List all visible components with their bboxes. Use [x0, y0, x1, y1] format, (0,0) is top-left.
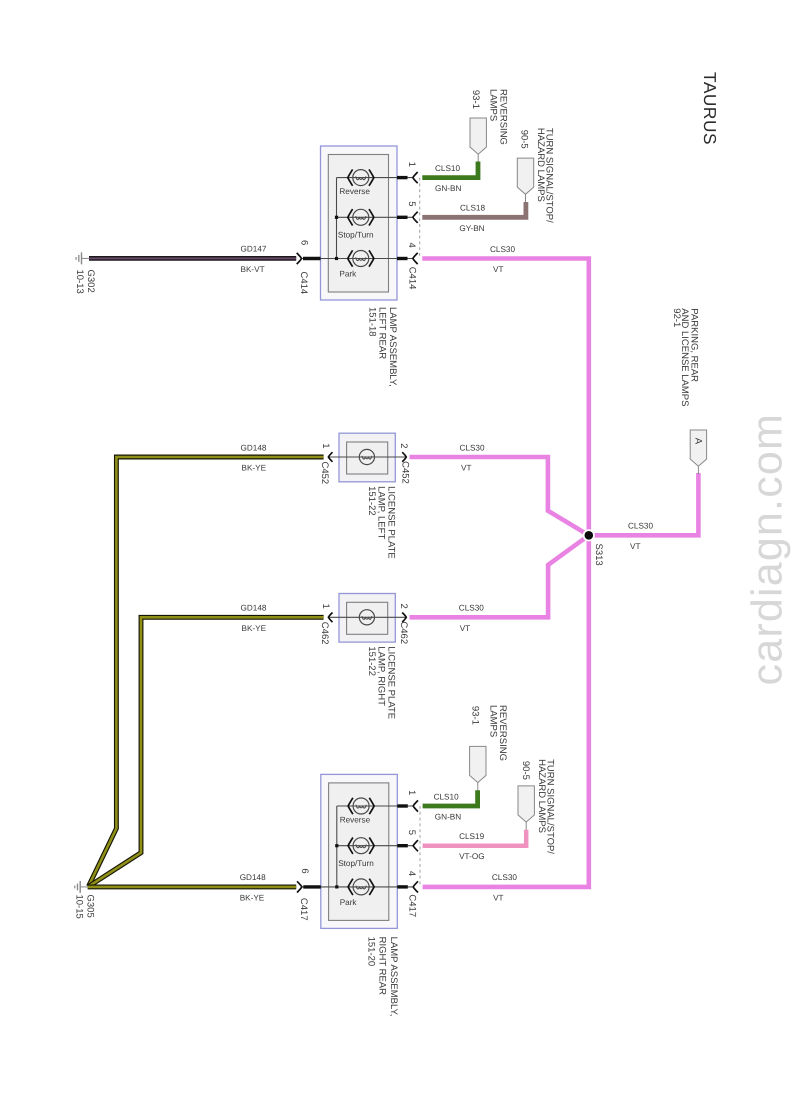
svg-text:CLS30: CLS30 [459, 604, 484, 613]
wire CLS30 VT (license right) [410, 535, 589, 617]
svg-text:1: 1 [406, 790, 417, 795]
label GD147 BK-VT [241, 245, 267, 274]
label CLS30 VT (right lamp) [492, 873, 517, 902]
label CLS18 GY-BN [459, 204, 485, 233]
svg-text:HAZARD LAMPS: HAZARD LAMPS [536, 759, 547, 833]
svg-text:CLS10: CLS10 [435, 164, 460, 173]
off-page connector A PARKING, REAR AND LICENSE LAMPS 92-1 [690, 430, 706, 466]
svg-text:RIGHT REAR: RIGHT REAR [377, 937, 388, 996]
label CLS30 VT (left lamp) [490, 245, 515, 274]
svg-text:151-22: 151-22 [366, 486, 377, 516]
wire CLS19 VT-OG [423, 830, 527, 846]
svg-text:LAMPS: LAMPS [488, 89, 499, 121]
label GD148 BK-YE (right lamp) [240, 873, 266, 902]
off-page connector REVERSING LAMPS 93-1 (left) [470, 118, 486, 154]
svg-text:Park: Park [340, 898, 358, 907]
svg-text:151-18: 151-18 [367, 307, 378, 337]
svg-text:S313: S313 [593, 544, 604, 566]
svg-text:6: 6 [299, 240, 310, 245]
svg-text:G302: G302 [85, 270, 96, 293]
wire CLS10 GN-BN (left) [422, 162, 478, 178]
svg-text:C452: C452 [319, 462, 330, 485]
svg-text:2: 2 [398, 443, 409, 448]
label GD148 BK-YE (license right) [241, 604, 267, 633]
svg-text:GD148: GD148 [240, 873, 266, 882]
svg-text:VT: VT [493, 265, 503, 274]
svg-text:C452: C452 [400, 461, 411, 484]
label CLS30 VT (license right) [459, 604, 484, 633]
svg-text:1: 1 [406, 162, 417, 167]
svg-text:G305: G305 [84, 895, 95, 918]
svg-text:VT: VT [460, 624, 470, 633]
svg-text:151-20: 151-20 [365, 937, 376, 967]
svg-text:5: 5 [406, 201, 417, 206]
off-page connector TURN SIGNAL/STOP/HAZARD LAMPS 90-5 (left) [517, 158, 533, 194]
svg-text:C417: C417 [298, 898, 309, 921]
ground G305 [75, 881, 88, 893]
svg-text:10-15: 10-15 [73, 895, 84, 919]
svg-text:GD148: GD148 [241, 604, 267, 613]
svg-text:CLS18: CLS18 [460, 204, 485, 213]
label GD148 BK-YE (license left) [241, 443, 267, 472]
label LICENSE PLATE LAMP, LEFT 151-22 [366, 486, 397, 559]
label LICENSE PLATE LAMP, RIGHT 151-22 [366, 646, 397, 719]
svg-text:BK-YE: BK-YE [242, 624, 267, 633]
svg-text:CLS10: CLS10 [434, 792, 459, 801]
lamp assembly right rear [297, 774, 420, 928]
label REVERSING LAMPS 93-1 (left) [470, 89, 508, 145]
label G305 10-15 [73, 895, 95, 919]
label CLS19 VT-OG [459, 832, 484, 861]
svg-text:CLS30: CLS30 [628, 522, 653, 531]
label CLS10 GN-BN (right) [434, 792, 462, 821]
svg-text:VT: VT [461, 464, 471, 473]
svg-text:HAZARD LAMPS: HAZARD LAMPS [535, 128, 546, 202]
svg-text:93-1: 93-1 [470, 90, 481, 109]
label TURN SIGNAL/STOP/HAZARD LAMPS 90-5 (right) [520, 759, 556, 854]
svg-text:BK-YE: BK-YE [240, 893, 265, 902]
label TURN SIGNAL/STOP/HAZARD LAMPS 90-5 (left) [519, 128, 555, 223]
svg-text:Stop/Turn: Stop/Turn [338, 859, 374, 868]
svg-text:Stop/Turn: Stop/Turn [338, 231, 374, 240]
wire GD148 BK-YE (license right to G305) [89, 617, 324, 886]
svg-text:92-1: 92-1 [671, 308, 682, 327]
svg-text:A: A [693, 438, 704, 445]
off-page connector REVERSING LAMPS 93-1 (right) [470, 746, 486, 782]
lamp assembly left rear [297, 146, 420, 300]
label CLS30 VT (license left) [460, 443, 485, 472]
svg-text:GN-BN: GN-BN [435, 813, 461, 822]
svg-text:cardiagn.com: cardiagn.com [744, 413, 792, 686]
svg-text:1: 1 [320, 604, 331, 609]
svg-text:93-1: 93-1 [470, 706, 481, 725]
wire GD148 BK-YE (license left to G305) [89, 457, 324, 886]
svg-text:2: 2 [398, 604, 409, 609]
wire CLS30 VT (splice to A) [589, 473, 699, 535]
label LAMP ASSEMBLY, LEFT REAR 151-18 [367, 307, 398, 387]
svg-text:4: 4 [406, 243, 417, 248]
label LAMP ASSEMBLY, RIGHT REAR 151-20 [365, 937, 399, 1017]
svg-text:BK-YE: BK-YE [242, 464, 267, 473]
svg-text:LAMP ASSEMBLY,: LAMP ASSEMBLY, [388, 937, 399, 1017]
svg-text:Reverse: Reverse [339, 187, 370, 196]
wire CLS30 VT (license left) [410, 457, 589, 535]
label PARKING, REAR AND LICENSE LAMPS 92-1 [671, 308, 700, 406]
svg-text:Park: Park [339, 269, 357, 278]
svg-text:5: 5 [406, 830, 417, 835]
svg-text:BK-VT: BK-VT [241, 265, 265, 274]
wire GD148 BK-YE (G305 to right lamp) [88, 884, 297, 889]
wire CLS30 VT trunk [422, 259, 589, 887]
svg-text:Reverse: Reverse [340, 816, 371, 825]
label CLS30 VT (splice to A) [628, 522, 653, 551]
svg-text:CLS30: CLS30 [490, 245, 515, 254]
splice S313 [583, 529, 595, 541]
label G302 10-13 [74, 270, 96, 294]
label CLS10 GN-BN (left) [435, 164, 461, 193]
svg-text:TAURUS: TAURUS [700, 72, 720, 145]
svg-text:4: 4 [406, 871, 417, 876]
svg-text:GN-BN: GN-BN [435, 184, 461, 193]
svg-text:GD148: GD148 [241, 443, 267, 452]
svg-text:GD147: GD147 [241, 245, 267, 254]
license plate lamp right [320, 594, 409, 643]
svg-text:VT: VT [630, 542, 640, 551]
svg-text:C417: C417 [407, 894, 418, 917]
ground G302 [76, 252, 89, 264]
svg-text:90-5: 90-5 [519, 130, 530, 149]
svg-text:151-22: 151-22 [366, 646, 377, 676]
svg-text:GY-BN: GY-BN [459, 224, 484, 233]
svg-text:VT: VT [493, 893, 503, 902]
wire CLS10 GN-BN (right) [423, 790, 478, 806]
svg-text:90-5: 90-5 [520, 761, 531, 780]
svg-text:C414: C414 [407, 267, 418, 290]
svg-text:CLS30: CLS30 [460, 443, 485, 452]
wire GD147 BK-VT [89, 256, 296, 261]
wire CLS18 GY-BN [422, 202, 526, 217]
label REVERSING LAMPS 93-1 (right) [470, 705, 508, 761]
svg-text:CLS19: CLS19 [459, 832, 484, 841]
svg-text:CLS30: CLS30 [492, 873, 517, 882]
svg-text:VT-OG: VT-OG [459, 852, 484, 861]
svg-text:10-13: 10-13 [74, 270, 85, 294]
license plate lamp left [320, 433, 409, 482]
svg-text:1: 1 [320, 443, 331, 448]
svg-text:C462: C462 [398, 621, 409, 644]
off-page connector TURN SIGNAL/STOP/HAZARD LAMPS 90-5 (right) [518, 786, 534, 822]
svg-text:6: 6 [299, 868, 310, 873]
svg-text:C414: C414 [298, 272, 309, 295]
svg-text:C462: C462 [319, 622, 330, 645]
svg-text:LAMPS: LAMPS [487, 705, 498, 737]
